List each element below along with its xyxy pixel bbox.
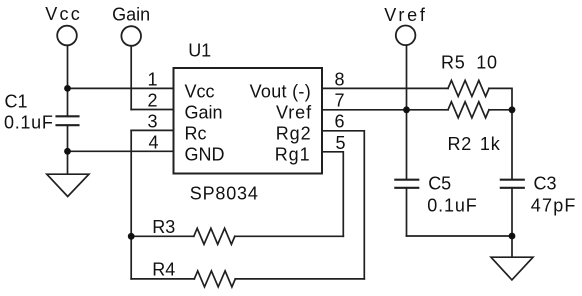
node junction Vcc/pin1 [64, 85, 71, 92]
wire pin2 [131, 109, 173, 111]
svg-text:1: 1 [147, 69, 157, 89]
svg-text:Rc: Rc [185, 124, 207, 144]
node junction C1/pin4 [64, 148, 71, 155]
ground right [491, 257, 533, 280]
capacitor C1 [57, 116, 79, 125]
resistor R2 [448, 102, 489, 118]
IC U1 box [174, 68, 323, 174]
wire Gain vertical [130, 46, 132, 110]
svg-text:Vcc: Vcc [185, 82, 215, 102]
resistor R3 [194, 228, 235, 244]
node junction R5/R2/C3 [509, 106, 516, 113]
wire R5 right lead [489, 88, 512, 179]
wire pin3 [131, 129, 173, 131]
svg-text:Vout (-): Vout (-) [250, 82, 311, 102]
wire pin8 [322, 87, 448, 89]
capacitor C5 [395, 180, 418, 188]
wire pin5 [322, 152, 343, 237]
svg-text:47pF: 47pF [531, 196, 577, 216]
wire C1 to ground [67, 125, 69, 174]
resistor R5 [448, 80, 489, 96]
wire pin7 [322, 109, 448, 111]
wire R3 right lead [235, 235, 343, 237]
wire pin1 [68, 87, 174, 89]
svg-text:6: 6 [335, 111, 345, 131]
svg-text:3: 3 [147, 111, 157, 131]
wire R3 left lead [131, 235, 194, 237]
wire Vref vertical [406, 45, 408, 180]
resistor R4 [194, 271, 235, 287]
svg-text:8: 8 [335, 69, 345, 89]
wire R2 right lead [489, 109, 512, 111]
node junction Rc/R3 [128, 233, 135, 240]
svg-text:C3: C3 [534, 174, 557, 194]
svg-text:R2 1k: R2 1k [448, 134, 501, 154]
svg-text:R3: R3 [152, 217, 175, 237]
wire R4 right lead [235, 278, 364, 280]
svg-text:Rg2: Rg2 [276, 124, 312, 144]
wire bottom horizontal [407, 235, 513, 237]
svg-text:4: 4 [148, 132, 158, 152]
svg-text:2: 2 [147, 90, 157, 110]
wire C5 to bottom [406, 188, 408, 236]
wire pin4 [68, 150, 174, 152]
svg-text:GND: GND [185, 145, 225, 165]
node junction Vref/pin7 [403, 106, 410, 113]
svg-text:Rg1: Rg1 [275, 145, 311, 165]
terminal Vref [396, 26, 416, 46]
node junction bottom/ground [509, 233, 516, 240]
svg-text:Vref: Vref [276, 103, 312, 123]
svg-text:Gain: Gain [112, 4, 150, 24]
svg-text:Vref: Vref [384, 5, 428, 25]
svg-text:SP8034: SP8034 [190, 184, 259, 204]
svg-text:0.1uF: 0.1uF [427, 196, 477, 216]
svg-text:U1: U1 [188, 40, 211, 60]
terminal Vcc [57, 26, 77, 46]
svg-text:Vcc: Vcc [45, 4, 82, 24]
ground [47, 174, 89, 196]
wire Vcc vertical [67, 45, 69, 116]
svg-text:C1: C1 [5, 91, 28, 111]
wire R4 left lead [131, 278, 194, 280]
svg-text:R4: R4 [152, 260, 175, 280]
wire C3 to ground [511, 188, 513, 257]
capacitor C3 [501, 180, 524, 188]
svg-text:0.1uF: 0.1uF [4, 112, 54, 132]
terminal Gain [121, 26, 141, 46]
svg-text:Gain: Gain [185, 103, 223, 123]
svg-text:C5: C5 [428, 174, 451, 194]
wire pin6 [322, 131, 364, 279]
svg-text:7: 7 [335, 90, 345, 110]
svg-text:R5 10: R5 10 [441, 53, 498, 73]
svg-text:5: 5 [336, 133, 346, 153]
wire Rc vertical [130, 130, 132, 279]
